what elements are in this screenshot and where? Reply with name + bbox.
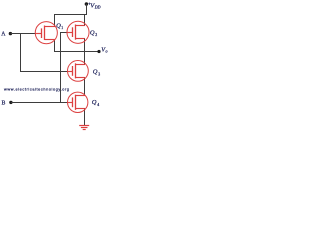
wire Q1 drain down <box>54 39 56 52</box>
label Q3 <box>93 68 100 76</box>
wire A branch to Q3 gate <box>20 71 68 73</box>
wire B branch to Q2 gate <box>60 32 68 34</box>
label Q4 <box>92 99 99 107</box>
svg-text:Q: Q <box>90 29 95 36</box>
wire A branch down <box>20 34 22 72</box>
svg-text:DD: DD <box>94 5 101 10</box>
svg-text:2: 2 <box>95 33 97 37</box>
wire B branch up <box>60 33 62 103</box>
svg-text:4: 4 <box>97 103 99 107</box>
wire output bus <box>54 51 99 53</box>
wire bus to Q1 source <box>54 15 56 28</box>
svg-text:www.electricaltechnology.org: www.electricaltechnology.org <box>4 87 69 91</box>
node +VDD dot <box>85 2 89 6</box>
svg-text:1: 1 <box>61 26 63 30</box>
wire output to Q3 drain <box>84 52 86 66</box>
svg-text:Q: Q <box>93 68 98 75</box>
wire bus to Q2 source <box>84 15 86 27</box>
wire B to Q4 gate <box>11 102 68 104</box>
node B dot <box>9 101 12 104</box>
pmos Q1 <box>35 22 57 44</box>
ground <box>79 126 89 130</box>
nmos Q4 <box>68 92 88 112</box>
label B <box>2 100 6 106</box>
watermark www.electricaltechnology.org <box>4 87 69 91</box>
wire Q2 drain down <box>84 38 86 52</box>
label A <box>1 32 6 38</box>
svg-text:o: o <box>106 49 108 54</box>
label Q1 <box>56 22 63 30</box>
svg-text:Q: Q <box>92 99 97 106</box>
label +VDD <box>88 2 100 9</box>
label Q2 <box>90 29 97 37</box>
wire VDD bus horizontal <box>54 14 87 16</box>
pmos Q2 <box>67 21 89 43</box>
nmos Q3 <box>68 61 89 82</box>
label Vo <box>101 47 107 54</box>
wire A to Q1 gate <box>10 33 36 35</box>
svg-text:B: B <box>2 100 6 106</box>
node A dot <box>9 32 12 35</box>
wire Q4 source to ground <box>84 108 86 126</box>
svg-text:3: 3 <box>98 72 100 76</box>
node Vo dot <box>97 50 100 53</box>
wire VDD stub down <box>86 4 88 15</box>
wire Q3 source to Q4 drain <box>84 77 86 96</box>
